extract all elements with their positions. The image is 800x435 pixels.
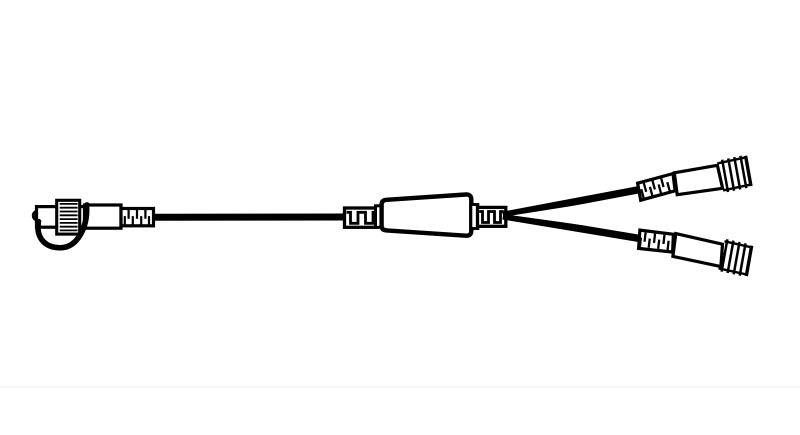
lower strain relief box [639,230,674,252]
upper connector barrel [674,165,722,194]
main cable wire [153,214,348,221]
thread silhouette edges [717,158,750,191]
lower branch cable wire [503,216,641,239]
left connector inner barrel [37,207,90,228]
cap tether end dot [84,202,89,207]
thread end rim [745,246,753,276]
upper strain relief comb pattern [640,177,670,198]
thread ribs [720,239,747,275]
thread end rim [745,156,752,186]
upper connector threaded tip [717,155,752,193]
center right meander box [478,207,506,226]
left connector ribbed nut [57,200,80,234]
center body left collar [376,206,383,228]
thread ribs [721,156,747,192]
junction notch (white V between branch cables) [513,205,580,225]
thread silhouette edges [719,241,752,274]
left connector outer barrel [85,205,122,228]
left connector cap tab [33,211,42,220]
center body right collar [471,205,478,229]
upper branch cable wire [503,189,641,215]
cap tether loop [38,207,87,248]
center left meander pattern [347,212,378,223]
left strain relief comb pattern [125,210,149,225]
center body [382,194,472,235]
lower connector threaded tip [718,239,753,277]
center left meander box [345,208,378,227]
left strain relief box [121,209,154,226]
upper strain relief box [638,174,676,201]
lower strain relief comb pattern [640,232,669,250]
lower connector barrel [673,234,723,267]
faint page seam line [0,386,800,388]
center right meander pattern [479,212,504,223]
